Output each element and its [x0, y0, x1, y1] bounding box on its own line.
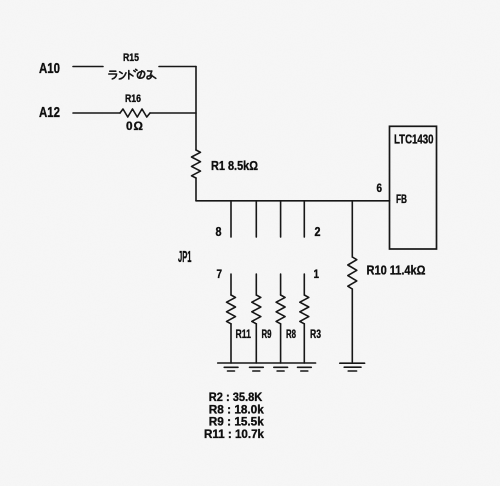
resistor R11 — [227, 295, 236, 324]
wire R11 to ground — [230, 324, 232, 363]
wire R8 to ground — [280, 324, 282, 363]
wire JP1 lower stub pin3 — [280, 274, 282, 295]
ground symbol under R11 — [224, 367, 238, 371]
resistor R1 — [192, 150, 201, 178]
svg-text:R16: R16 — [125, 93, 141, 105]
svg-text:6: 6 — [377, 181, 383, 195]
svg-text:R10 11.4kΩ: R10 11.4kΩ — [367, 263, 426, 278]
svg-text:A10: A10 — [39, 60, 60, 77]
ground symbol under R8 — [274, 367, 288, 371]
svg-text:8: 8 — [216, 225, 222, 239]
ground symbol under R9 — [250, 367, 264, 371]
resistor R9 — [252, 295, 261, 324]
svg-text:JP1: JP1 — [178, 249, 192, 266]
wire bus to R10 — [351, 201, 353, 257]
svg-text:R15: R15 — [123, 52, 139, 64]
svg-text:R11: R11 — [236, 327, 252, 341]
wire vertical junction A10/A12 to R1 — [195, 67, 197, 151]
wire R3 to ground — [303, 324, 305, 363]
wire bus to FB — [196, 200, 390, 202]
wire JP1 upper stub pin4 — [280, 201, 282, 237]
svg-text:A12: A12 — [39, 104, 60, 121]
ground symbol under R3 — [298, 367, 312, 371]
wire A10 right segment — [159, 66, 196, 68]
wire JP1 upper stub pin6 — [255, 201, 257, 237]
wire R1 to bus — [195, 178, 197, 201]
svg-text:R8: R8 — [286, 327, 296, 341]
wire A12 right segment — [150, 112, 196, 114]
wire JP1 upper stub pin2 — [303, 201, 305, 237]
wire R9 to ground — [255, 324, 257, 363]
wire JP1 upper stub pin8 — [230, 201, 232, 237]
wire A12 left segment — [73, 112, 120, 114]
wire JP1 lower stub pin1 — [303, 274, 305, 295]
ground bus under JP1 resistors — [218, 362, 316, 364]
wire R10 to ground — [351, 289, 353, 362]
svg-text:R1 8.5kΩ: R1 8.5kΩ — [211, 159, 258, 173]
resistor R10 — [348, 257, 357, 289]
svg-text:R11 : 10.7k: R11 : 10.7k — [204, 427, 264, 441]
wire A10 left segment — [73, 66, 103, 68]
svg-text:2: 2 — [315, 225, 321, 239]
svg-text:LTC1430: LTC1430 — [394, 132, 434, 147]
wire JP1 lower stub pin5 — [255, 274, 257, 295]
svg-text:R3: R3 — [310, 327, 321, 341]
svg-text:FB: FB — [396, 192, 407, 206]
svg-text:7: 7 — [217, 267, 223, 281]
resistor R3 — [300, 295, 309, 324]
resistor R16 — [120, 109, 150, 117]
svg-text:R9: R9 — [262, 327, 272, 341]
label ランドのみ (drawn glyphs) — [109, 69, 156, 79]
IC U1 LTC1430 box — [390, 126, 437, 249]
ground symbol under R10 — [340, 362, 365, 364]
wire JP1 lower stub pin7 — [230, 274, 232, 295]
svg-text:0 Ω: 0 Ω — [126, 119, 143, 133]
resistor R8 — [276, 295, 285, 324]
svg-text:1: 1 — [314, 267, 320, 281]
